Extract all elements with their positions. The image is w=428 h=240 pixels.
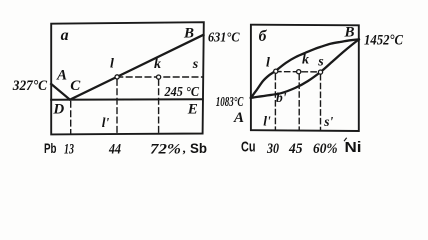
left dashed vertical at 44 below l bbox=[116, 80, 118, 134]
point l circle left bbox=[115, 75, 119, 79]
svg-text:631°C: 631°C bbox=[208, 30, 240, 45]
svg-text:s': s' bbox=[323, 114, 333, 129]
svg-text:45: 45 bbox=[288, 141, 302, 157]
svg-text:60%: 60% bbox=[313, 141, 338, 157]
svg-text:a: a bbox=[61, 27, 69, 44]
svg-text:B: B bbox=[343, 24, 354, 40]
svg-text:D: D bbox=[52, 102, 64, 118]
right diagram box frame bbox=[251, 25, 359, 131]
left diagram box frame bbox=[51, 22, 204, 134]
svg-text:A: A bbox=[56, 68, 67, 84]
svg-text:l': l' bbox=[263, 113, 271, 128]
left dashed vertical at 13 below C bbox=[70, 102, 72, 134]
svg-text:A: A bbox=[233, 110, 244, 126]
svg-text:s: s bbox=[192, 57, 199, 72]
svg-text:b': b' bbox=[276, 90, 287, 105]
svg-text:1452°C: 1452°C bbox=[364, 33, 403, 49]
point s circle right bbox=[318, 70, 322, 74]
scan tick above Ni bbox=[344, 138, 346, 141]
svg-text:l: l bbox=[110, 56, 114, 71]
svg-text:Sb: Sb bbox=[190, 140, 207, 156]
svg-text:1083°C: 1083°C bbox=[216, 95, 244, 110]
svg-text:k: k bbox=[302, 53, 309, 68]
svg-text:44: 44 bbox=[108, 141, 121, 157]
svg-text:k: k bbox=[154, 57, 161, 72]
svg-text:l: l bbox=[266, 56, 270, 71]
svg-text:C: C bbox=[70, 78, 81, 94]
right dashed vertical at 30 below l bbox=[274, 74, 276, 129]
svg-text:13: 13 bbox=[64, 141, 74, 157]
right dashed tie line l-k-s bbox=[276, 71, 321, 73]
right solidus curve A-s-B bbox=[251, 39, 359, 97]
point l circle right bbox=[274, 69, 278, 73]
svg-text:l': l' bbox=[102, 115, 110, 130]
point k circle right bbox=[297, 70, 301, 74]
svg-text:B: B bbox=[183, 25, 194, 41]
left eutectic line D-C-E bbox=[51, 98, 202, 101]
svg-text:327°C: 327°C bbox=[12, 78, 48, 94]
svg-text:30: 30 bbox=[266, 141, 279, 157]
right dashed vertical at 45 below k bbox=[298, 74, 300, 129]
svg-text:E: E bbox=[187, 102, 198, 118]
right liquidus curve A-l-B bbox=[251, 39, 359, 97]
svg-text:,: , bbox=[182, 141, 186, 156]
svg-text:s: s bbox=[317, 54, 324, 69]
svg-text:Ni: Ni bbox=[345, 139, 362, 156]
svg-text:245 °C: 245 °C bbox=[164, 84, 200, 99]
left dashed vertical at 72 below k bbox=[158, 80, 160, 134]
svg-text:Cu: Cu bbox=[241, 139, 256, 156]
svg-text:б: б bbox=[259, 28, 268, 45]
point k circle left bbox=[157, 75, 161, 79]
svg-text:72%: 72% bbox=[150, 141, 181, 157]
left liquidus line A-C-B bbox=[51, 35, 203, 100]
left dashed tie line l-k-s bbox=[117, 76, 203, 78]
svg-text:Pb: Pb bbox=[44, 140, 57, 156]
right dashed vertical at 60 below s bbox=[320, 75, 322, 130]
